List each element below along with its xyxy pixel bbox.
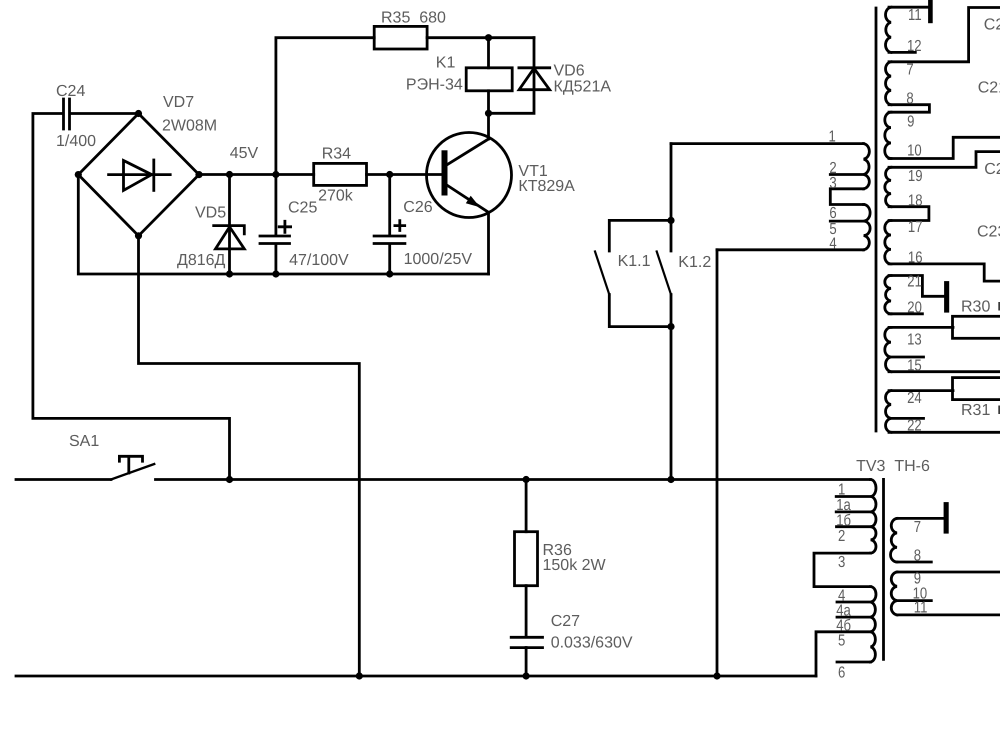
- svg-text:10: 10: [907, 143, 922, 160]
- svg-text:VD5: VD5: [195, 205, 226, 222]
- svg-text:C25: C25: [288, 199, 317, 216]
- svg-text:9: 9: [907, 113, 914, 130]
- svg-text:2: 2: [838, 528, 845, 545]
- svg-text:11: 11: [914, 600, 928, 617]
- svg-text:1б: 1б: [836, 513, 851, 530]
- svg-text:1: 1: [838, 482, 845, 499]
- svg-text:270k: 270k: [318, 188, 354, 205]
- svg-text:КД521А: КД521А: [554, 79, 612, 96]
- svg-text:17: 17: [908, 219, 923, 236]
- svg-text:13: 13: [907, 332, 922, 349]
- svg-text:45V: 45V: [230, 145, 259, 162]
- svg-text:VD7: VD7: [163, 94, 194, 111]
- svg-text:11: 11: [908, 7, 922, 24]
- svg-text:18: 18: [908, 193, 923, 210]
- svg-text:19: 19: [908, 168, 923, 185]
- svg-text:C2: C2: [984, 17, 1000, 34]
- svg-text:7: 7: [906, 62, 913, 79]
- svg-text:2W08M: 2W08M: [162, 118, 217, 135]
- svg-text:7: 7: [914, 519, 921, 536]
- svg-text:C2: C2: [984, 161, 1000, 178]
- svg-text:R30: R30: [961, 299, 990, 316]
- svg-text:8: 8: [906, 91, 913, 108]
- svg-text:20: 20: [907, 300, 922, 317]
- svg-text:3: 3: [829, 175, 836, 192]
- svg-text:150k 2W: 150k 2W: [543, 557, 607, 574]
- svg-text:VD6: VD6: [554, 63, 585, 80]
- svg-text:K1.2: K1.2: [678, 254, 711, 271]
- svg-text:4: 4: [829, 236, 836, 253]
- svg-text:R35 680: R35 680: [381, 10, 446, 27]
- svg-text:C23: C23: [977, 224, 1000, 241]
- svg-text:КТ829А: КТ829А: [518, 178, 575, 195]
- svg-text:C24: C24: [56, 83, 85, 100]
- svg-text:1a: 1a: [836, 497, 851, 514]
- svg-text:TV3 ТН-6: TV3 ТН-6: [856, 458, 930, 475]
- svg-text:Д816Д: Д816Д: [177, 252, 226, 269]
- svg-text:15: 15: [907, 358, 922, 375]
- svg-text:R34: R34: [322, 146, 351, 163]
- svg-text:K1: K1: [436, 55, 456, 72]
- svg-text:24: 24: [907, 390, 922, 407]
- svg-text:6: 6: [838, 665, 845, 682]
- svg-text:C27: C27: [551, 613, 580, 630]
- svg-text:3: 3: [838, 554, 845, 571]
- svg-text:РЭН-34: РЭН-34: [406, 77, 463, 94]
- svg-text:1/400: 1/400: [56, 133, 96, 150]
- svg-text:1: 1: [829, 129, 836, 146]
- svg-text:SA1: SA1: [69, 433, 99, 450]
- svg-text:6: 6: [829, 205, 836, 222]
- svg-text:5: 5: [838, 633, 845, 650]
- svg-text:K1.1: K1.1: [618, 253, 651, 270]
- svg-text:21: 21: [907, 274, 922, 291]
- svg-text:C21: C21: [978, 80, 1000, 97]
- svg-text:R31: R31: [961, 402, 990, 419]
- svg-text:47/100V: 47/100V: [289, 252, 349, 269]
- svg-text:C26: C26: [403, 199, 432, 216]
- svg-text:16: 16: [908, 249, 923, 266]
- svg-text:8: 8: [914, 548, 921, 565]
- svg-text:0.033/630V: 0.033/630V: [551, 634, 633, 651]
- svg-text:12: 12: [907, 38, 922, 55]
- svg-text:1000/25V: 1000/25V: [404, 251, 473, 268]
- svg-text:22: 22: [907, 418, 922, 435]
